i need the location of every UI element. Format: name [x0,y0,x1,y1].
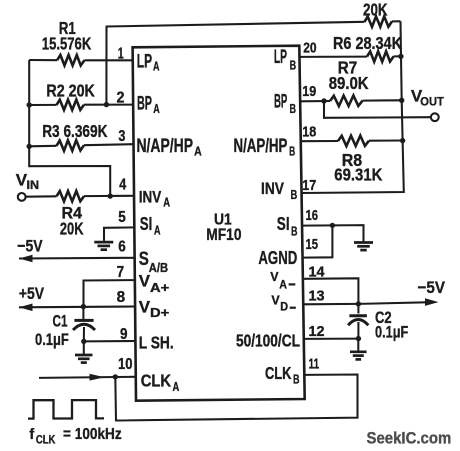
wire pin8 VD+ [19,305,134,308]
wire pin2 BPA [29,104,133,106]
resistor R6 [367,51,394,61]
resistor 20K top [365,16,393,27]
ground SIB/AGND [354,243,373,251]
svg-text:R2 20K: R2 20K [46,81,95,101]
svg-text:18: 18 [302,124,316,141]
svg-text:CLK: CLK [141,371,172,391]
VOUT label [411,87,444,109]
svg-text:13: 13 [309,288,325,305]
pin label AGND [258,247,297,268]
svg-text:BP: BP [274,92,287,113]
svg-text:0.1μF: 0.1μF [375,324,408,342]
fCLK label [29,426,122,446]
pin label N/AP/HPA [137,136,203,158]
svg-text:4: 4 [119,177,126,194]
pin label SIA [140,214,161,237]
wire top feedback [106,21,401,26]
svg-text:N/AP/HP: N/AP/HP [234,136,288,157]
svg-text:6: 6 [118,239,126,256]
+5V label [19,284,45,303]
wire pin15 AGND [302,225,333,257]
node junction R8-bus [400,138,405,143]
R1 label [59,18,76,38]
svg-text:D: D [280,302,288,314]
node junction R7 right [399,98,404,103]
svg-text:INV: INV [261,180,284,198]
pin label N/AP/HPB [234,136,296,158]
wire pin17 INVB [302,141,404,194]
arrow -5V left [19,255,33,263]
pin number 4 [119,177,126,194]
ground C2 [350,339,367,360]
node junction CLKA [113,374,118,379]
node junction pin12 [356,336,361,341]
wire C1 top [82,307,84,319]
svg-text:INV: INV [139,189,162,207]
pin label BPA [137,94,160,117]
R3 label 6.369K [42,121,108,141]
node junction pin16 [330,223,335,228]
svg-text:LP: LP [274,47,287,68]
arrow -5V right [425,298,439,306]
arrow +5V left [19,304,33,312]
wire pin3 N/AP/HPA [29,144,133,146]
svg-text:A: A [279,279,287,291]
pin number 10 [118,356,133,373]
pin label INVB [261,180,297,202]
wire C1 bottom [83,327,85,341]
svg-text:B: B [290,57,297,72]
R2 label 20K [46,81,95,101]
capacitor C1 [73,320,95,330]
resistor R8 [338,136,369,147]
pin number 18 [302,124,316,141]
svg-text:19: 19 [302,83,316,100]
pin label LSH [139,333,174,353]
wire pin9 LSH [84,340,135,342]
resistor R7 [330,96,363,107]
svg-text:5: 5 [118,209,126,226]
svg-text:2: 2 [117,90,125,107]
node junction R6-bus [398,54,403,59]
svg-text:L SH.: L SH. [139,333,174,353]
R4 value 20K [60,218,84,238]
svg-text:R3 6.369K: R3 6.369K [42,121,108,141]
pin number 8 [117,289,126,306]
svg-text:S: S [139,249,149,270]
pin label VD+ [139,298,170,321]
svg-text:SI: SI [140,214,153,234]
node junction pin9 C1 [81,339,86,344]
terminal VOUT [431,113,439,121]
wire pin19 BPB [300,100,402,101]
svg-text:20: 20 [303,39,316,56]
pin number 12 [309,323,325,340]
svg-text:15.576K: 15.576K [42,34,92,54]
svg-text:+5V: +5V [19,284,45,303]
svg-text:B: B [293,373,300,387]
pin label SA/B [139,249,168,275]
R8 label [342,150,363,170]
wire C2 top [357,304,359,314]
wire pin14 VA- [303,278,358,304]
svg-text:50/100/CL: 50/100/CL [236,331,300,351]
svg-text:A: A [153,101,160,116]
R4 label [62,204,83,223]
svg-text:69.31K: 69.31K [334,165,382,185]
watermark SeekIC.com [367,430,452,448]
pin number 3 [118,128,125,145]
svg-text:V: V [271,293,280,307]
svg-text:V: V [139,272,151,291]
wire pin13 VD- to -5V [303,302,426,304]
node junction R7 left [321,98,326,103]
R7 label [338,57,357,77]
svg-text:10: 10 [118,356,133,373]
svg-text:C1: C1 [53,312,68,330]
wire pin11 CLKB loop [115,375,357,421]
-5V left label [17,237,43,256]
node junction R3-bus [27,144,32,149]
wire pin1 LPA [29,59,132,61]
svg-text:9: 9 [120,326,128,343]
wire right bus [401,21,403,140]
svg-text:SeekIC.com: SeekIC.com [367,430,452,448]
svg-text:A+: A+ [150,281,169,295]
resistor R4 [57,191,85,201]
C2 value 0.1uF [375,324,408,342]
resistor R2 [57,100,85,110]
svg-text:R6 28.34K: R6 28.34K [333,33,402,53]
svg-text:BP: BP [137,94,152,115]
C1 label [53,312,68,330]
R6 label 28.34K [333,33,402,53]
pin label SIB [277,214,298,239]
pin number 13 [309,288,325,305]
pin label INVA [139,189,170,210]
pin label 50/100/CL [236,331,300,351]
svg-text:B: B [290,101,297,116]
svg-text:A: A [194,143,202,158]
pin number 16 [306,207,319,224]
svg-text:15: 15 [306,236,319,253]
svg-text:3: 3 [118,128,125,145]
svg-text:−5V: −5V [418,278,446,297]
svg-text:AGND: AGND [258,247,297,268]
arrow CLKA input [90,374,105,381]
svg-text:V: V [139,298,151,317]
wire pin18 N/AP/HPB [301,139,403,142]
node junction pin2 feedback [104,102,109,107]
20K top label [363,0,388,20]
wire pin16 SIB [302,225,364,241]
svg-text:11: 11 [309,356,320,373]
pin label BPB [274,92,296,117]
pin number 17 [302,177,316,194]
wire pin20 LPB [300,55,401,58]
svg-text:CLK: CLK [265,363,292,383]
U1 reference label [214,211,232,228]
clock waveform symbol [28,400,104,419]
wire CLKA input [39,377,136,378]
svg-text:B: B [291,225,298,239]
svg-text:−5V: −5V [17,237,43,256]
wire pin12 50/100/CL [304,338,359,340]
wire pin4 INVA [26,195,133,198]
svg-text:MF10: MF10 [206,226,241,244]
svg-text:1: 1 [118,46,124,63]
pin label VA+ [139,272,170,296]
svg-text:N/AP/HP: N/AP/HP [137,136,194,157]
ground SIA [94,242,113,250]
ground C1/LSH [75,341,93,362]
svg-text:17: 17 [302,177,316,194]
svg-text:V: V [270,270,279,284]
svg-text:CLK: CLK [36,434,56,446]
svg-text:A: A [173,380,180,394]
pin label VA- [270,270,295,291]
C1 value 0.1uF [35,331,69,349]
VIN label [16,171,39,193]
svg-text:A: A [163,195,170,209]
svg-text:A/B: A/B [149,261,168,275]
pin label VD- [271,293,295,313]
terminal VIN [18,193,26,201]
pin number 19 [302,83,316,100]
svg-text:= 100kHz: = 100kHz [63,426,122,443]
R7 value 89.0K [329,73,369,93]
svg-text:20K: 20K [60,218,84,238]
wire pin6 SA/B [19,257,134,260]
svg-text:8: 8 [117,289,126,306]
svg-text:20K: 20K [363,0,388,20]
C2 label [375,309,392,327]
node junction pin13 [356,301,361,306]
svg-text:I: I [286,214,290,234]
svg-text:IN: IN [27,180,40,192]
svg-text:12: 12 [309,323,325,340]
pin number 9 [120,326,128,343]
svg-text:OUT: OUT [420,97,444,109]
wire pin5 SIA [104,227,134,241]
svg-text:LP: LP [137,52,152,73]
pin number 14 [309,264,326,281]
svg-text:A: A [154,223,161,237]
pin label LPA [137,52,160,74]
node junction pin8 C1 [81,304,86,309]
svg-text:7: 7 [117,264,125,281]
pin number 6 [118,239,126,256]
resistor R3 [57,140,85,151]
pin number 5 [118,209,126,226]
wire pin7 VA+ [84,280,135,306]
node junction R2-bus [27,102,32,107]
pin number 1 [118,46,124,63]
svg-text:D+: D+ [150,306,169,320]
svg-text:89.0K: 89.0K [329,73,369,93]
svg-text:B: B [289,143,295,158]
svg-text:A: A [153,59,160,74]
pin number 7 [117,264,125,281]
op-amp U1 MF10 IC body [133,46,305,401]
pin number 11 [309,356,320,373]
MF10 part label [206,226,241,244]
resistor R1 [57,55,84,66]
pin number 20 [303,39,316,56]
wire VOUT branch [324,101,431,118]
pin label CLKA [141,371,180,395]
svg-text:16: 16 [306,207,319,224]
-5V right label [418,278,446,297]
pin number 2 [117,90,125,107]
svg-text:0.1μF: 0.1μF [35,331,69,349]
R1 value 15.576K [42,34,92,54]
capacitor C2 [348,316,368,326]
wire C2 bottom [357,322,359,339]
wire left input bus [29,60,110,196]
R8 value 69.31K [334,165,382,185]
pin label LPB [274,47,296,72]
wire feedback vertical from BPA [105,27,107,105]
svg-text:14: 14 [309,264,326,281]
svg-text:S: S [277,214,286,234]
pin number 15 [306,236,319,253]
pin label CLKB [265,363,300,387]
node junction pin4 [108,193,113,198]
svg-text:B: B [291,188,298,202]
